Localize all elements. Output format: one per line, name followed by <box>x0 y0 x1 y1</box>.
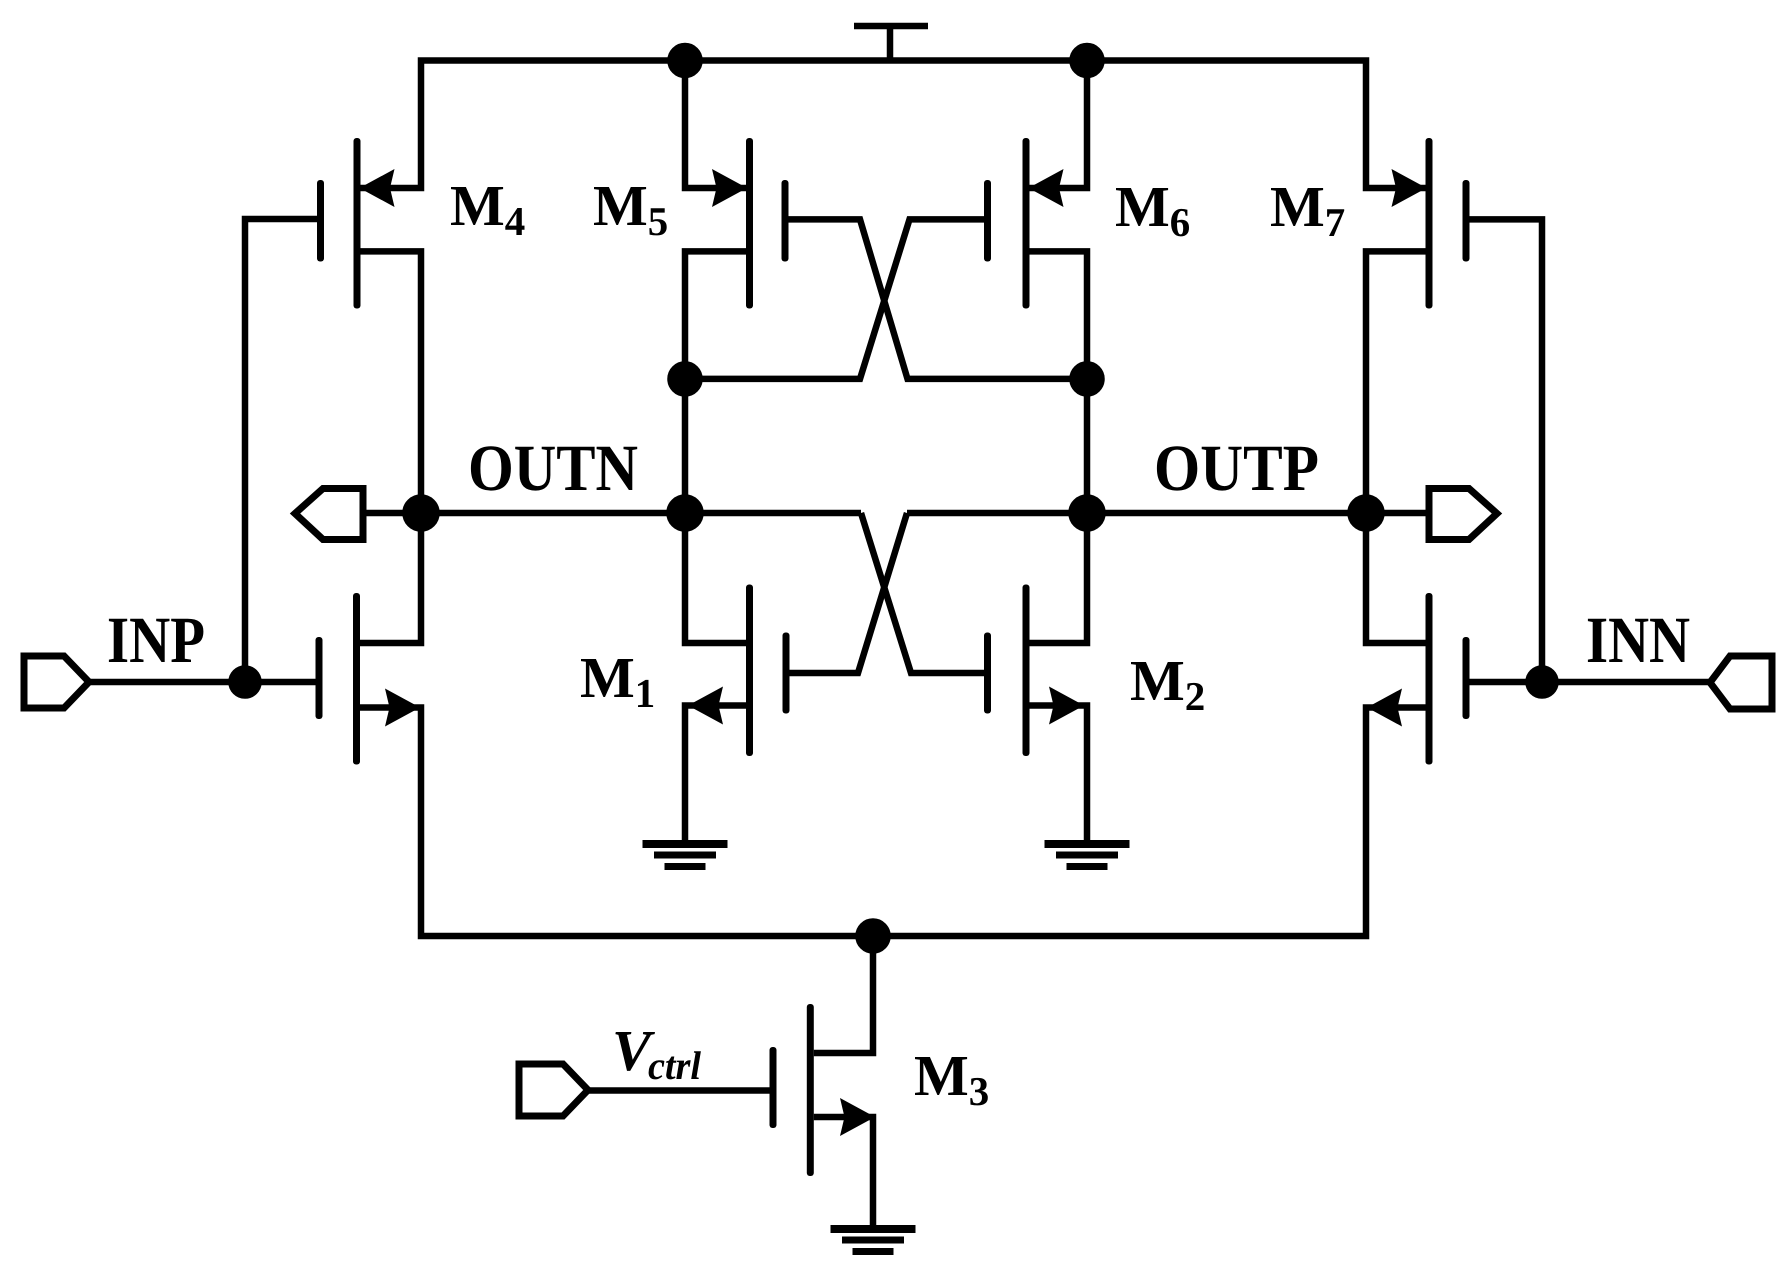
node OUTN junction at M4 drain <box>406 498 437 529</box>
node INP junction <box>232 669 259 696</box>
transistor M2 (NMOS) <box>984 585 1084 757</box>
port INP <box>24 656 89 708</box>
ground M1 <box>643 840 728 870</box>
node rail junction left <box>671 46 700 75</box>
wire M1 gate cross-coupled to OUTP <box>786 513 907 673</box>
label OUTN <box>471 446 637 490</box>
VDD supply symbol <box>854 26 928 61</box>
label INP <box>109 619 203 662</box>
label OUTP <box>1157 446 1317 490</box>
wire INP to gate <box>89 679 316 686</box>
node tail junction <box>859 922 888 951</box>
label INN <box>1588 619 1689 662</box>
wire M5 drain down through cross node to M1 drain <box>685 251 746 643</box>
transistor M5 (PMOS) <box>712 138 789 309</box>
label Vctrl <box>615 1032 701 1079</box>
wire M1 source to ground <box>685 706 746 845</box>
wire M5 gate cross-coupled to right node <box>785 219 1087 379</box>
port INN <box>1710 656 1772 709</box>
label M1 <box>581 659 653 707</box>
port Vctrl <box>519 1064 588 1116</box>
wire M7 gate down to INN node <box>1470 219 1543 682</box>
transistor INN input device <box>1367 593 1470 765</box>
port OUTN <box>295 489 363 540</box>
wire M4 gate down to INP node <box>245 219 317 682</box>
port OUTP <box>1429 489 1497 540</box>
node M5 drain junction <box>671 364 700 393</box>
node OUTN junction <box>670 498 701 529</box>
label M3 <box>915 1057 988 1105</box>
ground M3 <box>831 1225 916 1255</box>
wire INN to gate <box>1470 679 1711 686</box>
wire OUTP line <box>907 510 1429 517</box>
transistor M4 (PMOS) <box>317 138 395 309</box>
label M2 <box>1131 662 1204 710</box>
node rail junction right <box>1073 46 1102 75</box>
transistor M7 (PMOS) <box>1392 138 1470 309</box>
wire OUTN line <box>363 510 861 517</box>
wire M6 source to rail <box>1030 61 1088 189</box>
wire M2 source to ground <box>1030 706 1088 845</box>
transistor M1 (NMOS) <box>688 585 790 757</box>
label M4 <box>451 187 525 235</box>
wire M2 gate cross-coupled to OUTN <box>861 513 988 673</box>
ground M2 <box>1045 840 1130 870</box>
node M6 drain junction <box>1073 364 1102 393</box>
transistor M3 (NMOS tail) <box>770 936 876 1176</box>
wire M4 drain down through OUTN node to INP device drain <box>360 251 421 643</box>
wire Vctrl to M3 gate <box>588 1087 770 1094</box>
transistor M6 (PMOS) <box>984 138 1064 309</box>
wire M5 source to rail <box>685 61 746 189</box>
node INN junction <box>1529 669 1556 696</box>
node OUTP junction <box>1072 498 1103 529</box>
wire M6 drain down through cross node to M2 drain <box>1030 251 1088 643</box>
label M6 <box>1116 188 1189 236</box>
transistor INP input device <box>316 593 421 765</box>
wire M6 gate cross-coupled to left node <box>685 219 988 379</box>
wire tail rail from INP source to INN source <box>360 708 1426 937</box>
wire M3 source to ground <box>814 1117 873 1229</box>
label M7 <box>1271 188 1344 236</box>
wire top supply rail from M4 source to M7 source <box>361 61 1426 189</box>
wire M7 drain down through OUTP node to INN device drain <box>1366 251 1426 643</box>
node OUTP junction at M7 drain <box>1351 498 1382 529</box>
label M5 <box>594 187 667 235</box>
